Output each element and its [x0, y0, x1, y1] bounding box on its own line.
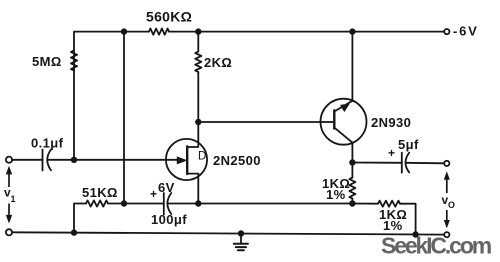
svg-text:51KΩ: 51KΩ	[82, 185, 118, 200]
node 51K ground junction dot	[71, 229, 77, 235]
svg-text:+: +	[150, 187, 157, 201]
battery 6V/100uf left plate	[163, 193, 165, 215]
ground bar 2	[236, 246, 246, 248]
transistor Q1 drain arm	[188, 122, 198, 147]
terminal v0 bottom	[444, 232, 449, 237]
v1 arrow down	[8, 204, 10, 218]
transistor Q2 2N930 circle	[321, 99, 367, 145]
resistor 2K vertical wire top	[197, 32, 199, 52]
node gate/5M junction dot	[71, 157, 77, 163]
resistor 1K vertical top wire	[351, 163, 353, 178]
ground bar 3	[238, 249, 244, 251]
capacitor C 5uf left plate	[401, 153, 403, 173]
svg-text:5MΩ: 5MΩ	[32, 54, 62, 69]
wire top rail left segment	[74, 32, 149, 160]
ground stub	[240, 234, 242, 243]
svg-text:5μf: 5μf	[398, 137, 419, 152]
transistor Q1 2N2500 circle	[166, 139, 207, 180]
node base/drain junction dot	[195, 119, 201, 125]
transistor Q2 collector arm down	[334, 128, 352, 163]
capacitor C 0.1uf left plate	[42, 150, 44, 171]
resistor 5M zigzag	[71, 51, 77, 71]
node 51K/feedback junction dot	[121, 200, 127, 206]
capacitor C 5uf curved plate	[406, 153, 410, 173]
svg-text:1: 1	[11, 194, 16, 204]
svg-text:1%: 1%	[383, 218, 403, 233]
node 1K junction junction dot	[349, 200, 355, 206]
wire 51K left drop	[74, 204, 86, 233]
wire feedback vertical x=124	[123, 32, 125, 204]
ground bar 1	[234, 243, 248, 245]
resistor 1K horizontal zigzag	[378, 201, 400, 207]
node output/collector junction dot	[349, 159, 355, 165]
battery 6V/100uf curved plate	[167, 193, 171, 214]
node 2K top junction dot	[195, 28, 201, 34]
svg-text:+: +	[388, 146, 395, 160]
wire capacitor to gate	[48, 159, 178, 161]
svg-text:0.1μf: 0.1μf	[31, 136, 64, 151]
transistor Q2 base bar	[333, 110, 335, 128]
wire 51K to battery	[108, 203, 164, 205]
svg-text:SeekIC.com: SeekIC.com	[381, 233, 492, 259]
resistor R 560K zigzag	[149, 29, 169, 35]
wire 2K bottom to base node	[197, 72, 199, 122]
svg-text:1%: 1%	[326, 187, 346, 202]
wire top rail right segment	[169, 31, 444, 33]
wire battery to source node	[168, 203, 353, 205]
v0 arrow up	[446, 176, 448, 193]
svg-text:560KΩ: 560KΩ	[146, 9, 192, 25]
svg-text:6V: 6V	[158, 180, 175, 195]
svg-text:100μf: 100μf	[151, 212, 187, 227]
svg-text:-6V: -6V	[453, 24, 479, 39]
transistor Q2 emitter arrow	[341, 104, 349, 111]
resistor 1K vertical zigzag	[349, 178, 355, 199]
node emitter rail junction dot	[349, 28, 355, 34]
resistor 1K vertical bottom wire	[351, 199, 353, 204]
wire 5uf to output terminal	[406, 162, 445, 165]
svg-text:O: O	[448, 200, 455, 210]
terminal -6V	[444, 29, 449, 34]
wire input terminal to capacitor	[12, 159, 43, 161]
v0 arrow down	[446, 210, 448, 222]
node feedback top junction dot	[121, 28, 127, 34]
svg-text:2N930: 2N930	[371, 115, 411, 130]
wire base node to transistor base	[198, 121, 334, 123]
svg-text:2N2500: 2N2500	[213, 153, 261, 168]
node source/battery junction dot	[195, 200, 201, 206]
node 1K bottom junction dot	[412, 231, 418, 237]
wire 1K horizontal to bottom rail	[400, 204, 416, 235]
capacitor C 0.1uf curved plate	[47, 150, 51, 171]
v1 arrow up	[8, 172, 10, 187]
transistor Q2 emitter arm up	[334, 32, 352, 112]
terminal v0 top	[444, 161, 449, 166]
bottom rail	[12, 232, 444, 234]
transistor Q1 source arm	[188, 174, 198, 204]
transistor Q1 gate arrow	[177, 157, 186, 164]
svg-text:D: D	[198, 151, 206, 163]
wire output node to 5uf cap	[352, 162, 401, 164]
resistor 2K zigzag	[195, 52, 201, 73]
terminal v1 top	[6, 157, 12, 163]
node ground junction junction dot	[238, 230, 244, 236]
wire node to horizontal 1K	[352, 203, 378, 205]
resistor 51K zigzag	[86, 200, 108, 206]
terminal v1 bottom	[6, 229, 12, 235]
svg-text:2KΩ: 2KΩ	[204, 55, 232, 70]
transistor Q1 channel bar	[186, 146, 188, 174]
